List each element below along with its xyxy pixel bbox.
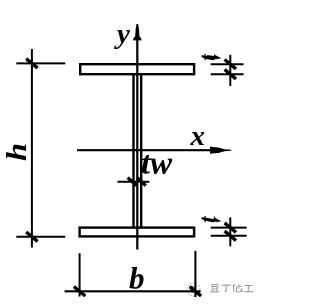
svg-text:tw: tw — [141, 146, 173, 182]
svg-text:x: x — [190, 120, 206, 152]
svg-text:y: y — [114, 18, 130, 50]
svg-text:h: h — [1, 143, 33, 161]
svg-text:b: b — [129, 261, 145, 296]
